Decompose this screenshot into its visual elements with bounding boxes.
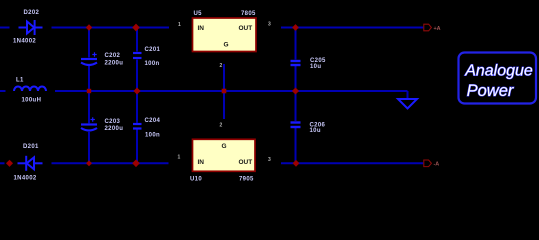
junction top rail x89: [86, 24, 93, 31]
capacitor C201: [133, 53, 142, 58]
svg-text:10u: 10u: [310, 128, 321, 134]
junction mid rail x89: [87, 89, 91, 93]
svg-text:1: 1: [178, 22, 181, 28]
svg-text:10u: 10u: [310, 64, 321, 70]
wire capacitor column x137 top: [136, 28, 138, 52]
diode D201: [18, 156, 43, 171]
svg-text:-A: -A: [434, 162, 440, 168]
svg-text:C204: C204: [145, 118, 161, 124]
svg-text:C203: C203: [105, 119, 121, 125]
wire capacitor column x137 bottom: [136, 91, 138, 123]
ground symbol: [398, 99, 417, 109]
svg-text:3: 3: [268, 22, 271, 28]
wire bottom rail diode to regulator: [52, 162, 169, 164]
junction mid rail x137: [133, 87, 140, 94]
junction bottom rail x296: [293, 160, 300, 167]
regulator U10 box: [193, 139, 256, 171]
svg-text:L1: L1: [16, 77, 24, 83]
port +A arrow: [424, 24, 432, 31]
svg-text:100n: 100n: [145, 132, 160, 138]
title box Analogue Power: [459, 53, 537, 104]
capacitor C202 electrolytic: [81, 59, 97, 65]
svg-text:1N4002: 1N4002: [14, 176, 37, 182]
capacitor C205: [291, 61, 301, 65]
svg-text:1: 1: [178, 155, 181, 161]
svg-text:2: 2: [220, 123, 223, 129]
svg-text:100n: 100n: [145, 61, 160, 67]
junction bottom rail x89: [86, 160, 92, 166]
junction bottom rail x136: [132, 159, 140, 167]
svg-text:IN: IN: [198, 159, 205, 166]
inductor L1: [14, 87, 46, 91]
diode D202: [19, 20, 43, 35]
svg-text:Analogue: Analogue: [464, 63, 533, 80]
junction mid rail x224: [222, 89, 227, 94]
svg-text:Power: Power: [467, 82, 515, 100]
wire top rail diode to regulator: [52, 27, 170, 29]
svg-text:OUT: OUT: [239, 159, 253, 166]
capacitor C203 electrolytic: [81, 125, 97, 131]
junction marker bottom-left: [6, 160, 13, 167]
svg-text:G: G: [224, 42, 229, 49]
wire mid rail stub left: [0, 90, 6, 92]
wire U10 OUT to -A rail: [281, 162, 423, 164]
svg-text:D201: D201: [23, 144, 39, 150]
junction mid rail x295.5: [292, 87, 299, 94]
svg-text:OUT: OUT: [239, 25, 253, 32]
wire bottom rail stub left: [0, 162, 5, 164]
regulator U5 box: [193, 18, 257, 52]
capacitor C204: [133, 124, 142, 129]
junction top rail x295.5: [292, 24, 299, 31]
wire output cap column x295.5 bottom: [295, 91, 297, 121]
svg-text:3: 3: [268, 157, 271, 163]
port -A arrow: [424, 160, 432, 167]
wire ground column x224: [223, 64, 225, 119]
svg-text:+A: +A: [434, 26, 441, 32]
svg-text:2200u: 2200u: [105, 61, 124, 67]
svg-text:U5: U5: [194, 11, 203, 17]
svg-text:C202: C202: [105, 53, 121, 59]
svg-text:U10: U10: [190, 177, 202, 183]
svg-text:G: G: [222, 143, 227, 150]
wire top rail left of diode D202: [0, 27, 10, 29]
plus sign C202: [92, 52, 96, 56]
wire +input column x89 top: [88, 28, 90, 58]
svg-text:C201: C201: [145, 47, 161, 53]
capacitor C206: [291, 123, 301, 128]
svg-text:1N4002: 1N4002: [13, 39, 36, 45]
wire U5 OUT to +A rail: [281, 27, 423, 29]
svg-text:IN: IN: [198, 25, 205, 32]
svg-text:7805: 7805: [241, 11, 256, 17]
svg-text:D202: D202: [24, 10, 40, 16]
svg-text:7905: 7905: [239, 177, 254, 183]
wire -input column x89 bottom: [88, 91, 90, 123]
wire ground drop right: [407, 91, 409, 99]
junction top rail x136: [132, 24, 140, 32]
plus sign C203: [91, 117, 95, 121]
svg-text:100uH: 100uH: [22, 98, 42, 104]
svg-text:2: 2: [220, 63, 223, 69]
wire mid rail: [55, 90, 408, 92]
wire output cap column x295.5 top: [295, 28, 297, 60]
svg-text:2200u: 2200u: [105, 126, 124, 132]
